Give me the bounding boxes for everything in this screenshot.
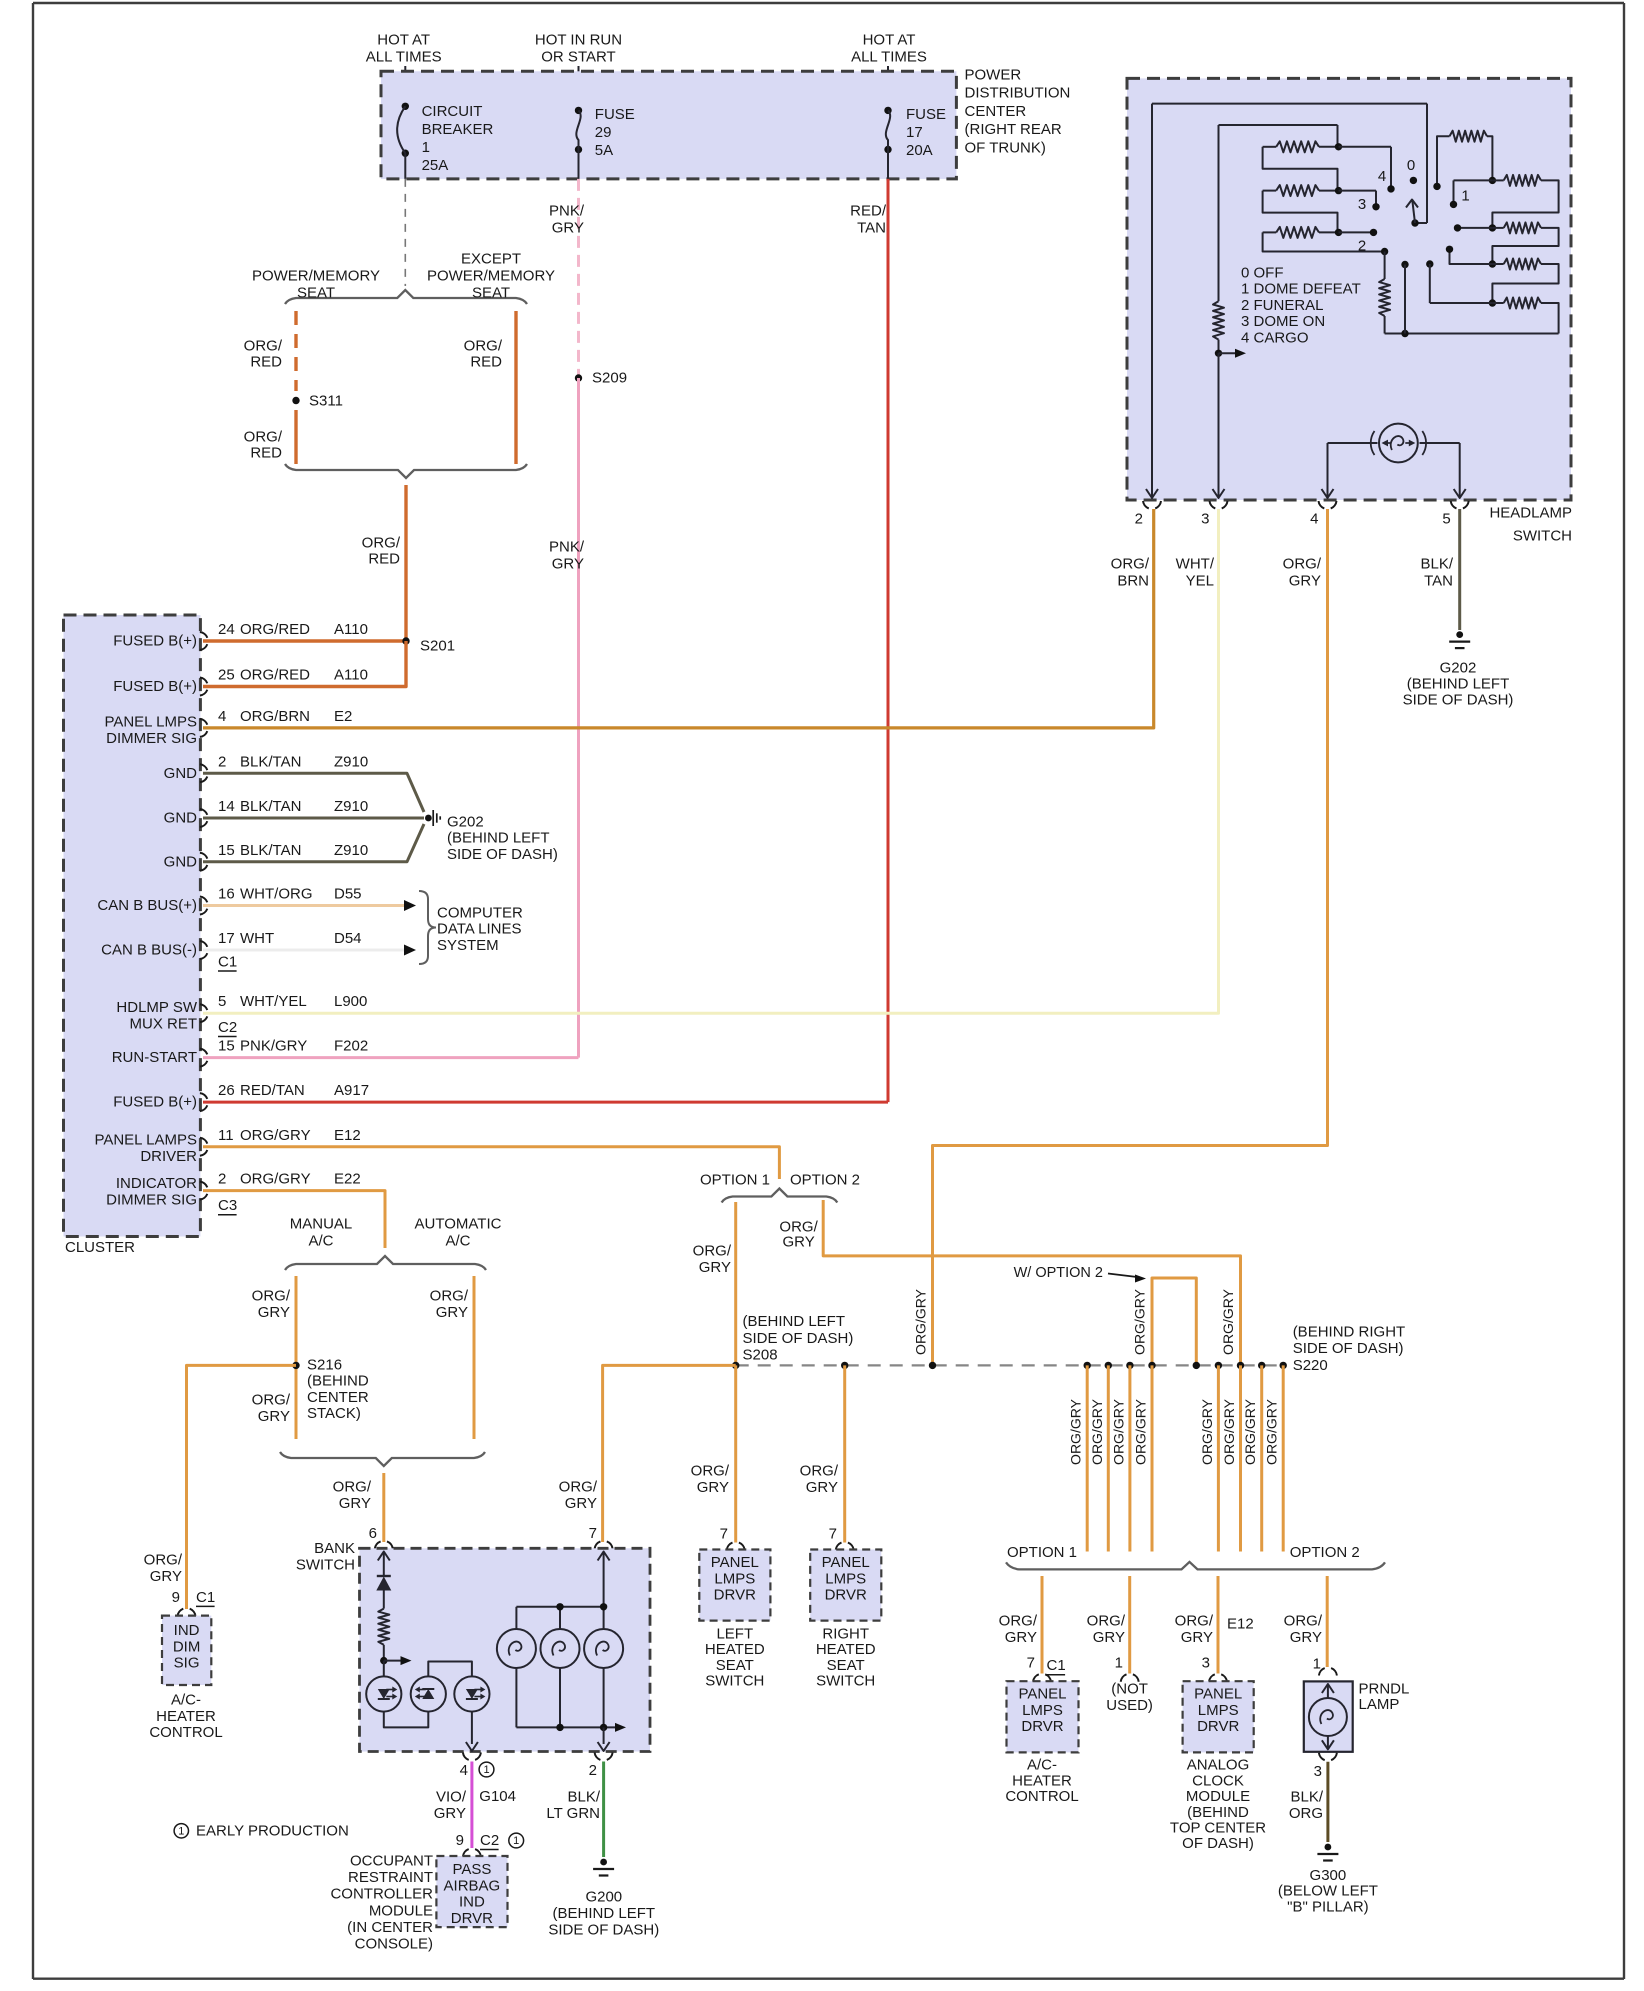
svg-text:D55: D55 (334, 886, 362, 903)
ground G200 (548, 1859, 659, 1939)
svg-text:14: 14 (218, 798, 235, 815)
svg-text:RED: RED (368, 551, 400, 568)
svg-text:GRY: GRY (436, 1304, 468, 1321)
svg-text:(NOT: (NOT (1111, 1681, 1148, 1698)
svg-text:SIG: SIG (174, 1655, 200, 1672)
resistor bank R5t (1430, 298, 1559, 334)
svg-text:ORG/GRY: ORG/GRY (913, 1288, 929, 1355)
svg-text:17: 17 (218, 930, 235, 947)
wire ORG/GRY option tap 8 (1264, 1365, 1284, 1551)
svg-text:ORG/GRY: ORG/GRY (1221, 1398, 1237, 1465)
svg-text:ORG/: ORG/ (1284, 1613, 1323, 1630)
svg-text:7: 7 (829, 1526, 837, 1543)
pin 2 headlamp (1135, 501, 1161, 528)
svg-text:3: 3 (1358, 196, 1366, 213)
svg-text:FUSED B(+): FUSED B(+) (113, 678, 197, 695)
pin 6 bank switch (369, 1525, 393, 1549)
note early production (174, 1822, 349, 1839)
svg-text:S216: S216 (307, 1357, 342, 1374)
ground G202 (headlamp) (1403, 631, 1514, 709)
svg-text:W/ OPTION 2: W/ OPTION 2 (1014, 1265, 1103, 1281)
wire BLK/TAN headlamp pin5 to G202 (1420, 509, 1459, 630)
svg-text:ORG/GRY: ORG/GRY (1131, 1288, 1147, 1355)
wire ORG/GRY E12 to analog clock (1175, 1576, 1254, 1674)
svg-text:RUN-START: RUN-START (112, 1049, 197, 1066)
svg-text:GRY: GRY (1093, 1629, 1125, 1646)
svg-text:2: 2 (589, 1762, 597, 1779)
svg-text:ORG/: ORG/ (464, 338, 503, 355)
pin 4 cluster PANEL LMPS DIMMER SIG (104, 708, 352, 747)
svg-text:A/C: A/C (308, 1233, 333, 1250)
svg-text:PANEL LMPS: PANEL LMPS (104, 714, 197, 731)
wire ORG/RED seat merge to S201 (362, 485, 406, 641)
svg-text:(BEHIND: (BEHIND (307, 1373, 369, 1390)
lamp headlamp illumination (1371, 424, 1426, 463)
svg-text:G200: G200 (585, 1888, 622, 1905)
pin 9 pass airbag (456, 1832, 524, 1857)
wire VIO/GRY bank pin4 (434, 1762, 516, 1849)
svg-text:CONTROL: CONTROL (149, 1724, 222, 1741)
pin 4 headlamp (1310, 501, 1336, 528)
svg-text:17: 17 (906, 124, 923, 141)
svg-text:LMPS: LMPS (1022, 1702, 1063, 1719)
svg-text:(BEHIND LEFT: (BEHIND LEFT (743, 1313, 846, 1330)
wire ORG/RED (except power/memory seat) (464, 311, 516, 464)
svg-text:GRY: GRY (150, 1568, 182, 1585)
svg-text:AUTOMATIC: AUTOMATIC (415, 1216, 502, 1233)
svg-text:ORG/GRY: ORG/GRY (1220, 1288, 1236, 1355)
resistor bank switch (378, 1609, 389, 1661)
A/C-heater panel lmps drvr box (1005, 1681, 1078, 1805)
svg-text:29: 29 (595, 124, 612, 141)
svg-text:WHT/ORG: WHT/ORG (240, 886, 313, 903)
wire ORG/GRY not used (1087, 1576, 1130, 1674)
svg-text:A110: A110 (334, 621, 368, 638)
svg-text:ORG/GRY: ORG/GRY (1068, 1398, 1084, 1465)
svg-text:G104: G104 (479, 1788, 516, 1805)
svg-text:1: 1 (422, 139, 430, 156)
svg-text:1: 1 (1461, 188, 1469, 205)
wire WHT pin17 (203, 945, 416, 972)
svg-text:HOT AT: HOT AT (377, 32, 430, 49)
fuse 17 20A (884, 106, 946, 179)
svg-text:HEATED: HEATED (705, 1641, 765, 1658)
svg-text:RED: RED (250, 445, 282, 462)
svg-text:BLK/TAN: BLK/TAN (240, 753, 301, 770)
svg-text:LEFT: LEFT (716, 1626, 753, 1643)
svg-text:3 DOME ON: 3 DOME ON (1241, 313, 1325, 330)
svg-text:7: 7 (720, 1526, 728, 1543)
svg-text:C2: C2 (218, 1019, 237, 1036)
wire BLK/LT GRN bank pin2 (546, 1762, 603, 1858)
svg-text:4: 4 (218, 708, 226, 725)
resistor ladder R1 (1263, 141, 1343, 152)
node center contact a (1401, 261, 1408, 334)
wire LED3 to pin4 (466, 1712, 478, 1751)
svg-text:(BEHIND LEFT: (BEHIND LEFT (1407, 676, 1510, 693)
svg-text:IND: IND (459, 1894, 485, 1911)
svg-text:PASS: PASS (452, 1861, 491, 1878)
svg-text:OCCUPANT: OCCUPANT (350, 1853, 433, 1870)
svg-text:BLK/TAN: BLK/TAN (240, 798, 301, 815)
svg-text:ORG/: ORG/ (252, 1392, 291, 1409)
pin 9 A/C-heater control (172, 1589, 216, 1616)
svg-text:GRY: GRY (806, 1479, 838, 1496)
resistor center vertical (1379, 252, 1390, 334)
svg-text:S209: S209 (592, 370, 627, 387)
svg-text:CONSOLE): CONSOLE) (355, 1936, 433, 1953)
svg-text:Z910: Z910 (334, 753, 368, 770)
svg-text:SYSTEM: SYSTEM (437, 937, 499, 954)
wire ORG/GRY to left heated seat (691, 1365, 736, 1542)
svg-text:1: 1 (1115, 1655, 1123, 1672)
LED 2 bank switch (411, 1676, 446, 1711)
pin 11 cluster PANEL LAMPS DRIVER (94, 1127, 360, 1165)
lamp bank bulb 3 (584, 1629, 623, 1727)
svg-text:(BEHIND LEFT: (BEHIND LEFT (447, 830, 550, 847)
svg-text:PANEL: PANEL (1018, 1686, 1066, 1703)
pin 16 cluster CAN B BUS(+) (97, 886, 361, 915)
wire PNK/GRY pin15 run-start (203, 1056, 579, 1059)
svg-text:E12: E12 (334, 1127, 361, 1144)
svg-text:3: 3 (1202, 1655, 1210, 1672)
left heated seat panel lmps drvr box (699, 1550, 770, 1690)
wire bank pin6 chain (378, 1552, 390, 1577)
PRNDL lamp box (1304, 1680, 1410, 1752)
svg-text:STACK): STACK) (307, 1405, 361, 1422)
node HOT AT ALL TIMES (right feed) (851, 32, 927, 111)
resistor bank R2t (1450, 175, 1559, 228)
svg-text:ORG/GRY: ORG/GRY (240, 1127, 311, 1144)
svg-text:GRY: GRY (552, 556, 584, 573)
brace MANUAL/AUTOMATIC A/C (285, 1216, 502, 1271)
svg-text:DRVR: DRVR (1021, 1718, 1063, 1735)
svg-text:GRY: GRY (1181, 1629, 1213, 1646)
svg-text:TOP CENTER: TOP CENTER (1170, 1820, 1266, 1837)
brace computer data lines (419, 891, 523, 964)
svg-text:CAN B BUS(+): CAN B BUS(+) (97, 897, 197, 914)
svg-text:RED: RED (470, 354, 502, 371)
svg-text:DRVR: DRVR (825, 1587, 867, 1604)
svg-text:POWER/MEMORY: POWER/MEMORY (252, 268, 380, 285)
wire ORG/GRY option tap 3 (1110, 1365, 1130, 1551)
pin 25 cluster FUSED B(+) (113, 667, 368, 696)
svg-text:26: 26 (218, 1082, 235, 1099)
diode bank switch (376, 1576, 391, 1609)
pin 14 cluster GND (164, 798, 369, 827)
svg-text:(BELOW LEFT: (BELOW LEFT (1278, 1883, 1378, 1900)
svg-text:3: 3 (1314, 1763, 1322, 1780)
svg-text:25: 25 (218, 667, 235, 684)
svg-text:CENTER: CENTER (307, 1389, 369, 1406)
svg-text:S201: S201 (420, 638, 455, 655)
svg-text:1: 1 (513, 1835, 519, 1847)
svg-text:BRN: BRN (1117, 573, 1149, 590)
svg-text:HOT IN RUN: HOT IN RUN (535, 32, 622, 49)
svg-text:SWITCH: SWITCH (1513, 528, 1572, 545)
splice S201 (402, 637, 455, 654)
svg-text:AIRBAG: AIRBAG (444, 1877, 501, 1894)
svg-text:OPTION 1: OPTION 1 (700, 1172, 770, 1189)
svg-text:LT GRN: LT GRN (546, 1805, 600, 1822)
brace A/C merge (280, 1452, 485, 1466)
node contact 2 (1358, 229, 1377, 255)
wire ORG/GRY to PRNDL lamp (1284, 1576, 1328, 1667)
svg-text:ALL TIMES: ALL TIMES (366, 49, 442, 66)
wire ORG/GRY E22 pin2 to AC brace (203, 1191, 385, 1248)
svg-text:GRY: GRY (552, 220, 584, 237)
brace seat merge (285, 464, 527, 478)
svg-text:ALL TIMES: ALL TIMES (851, 49, 927, 66)
wire ORG/GRY option tap 1 (1068, 1365, 1088, 1551)
svg-text:ORG: ORG (1289, 1805, 1323, 1822)
svg-text:GRY: GRY (1289, 573, 1321, 590)
svg-text:HOT AT: HOT AT (863, 32, 916, 49)
svg-text:SIDE OF DASH): SIDE OF DASH) (447, 846, 558, 863)
svg-text:OR START: OR START (541, 49, 615, 66)
wire R2 wrap to R3 (1263, 191, 1338, 233)
svg-text:ORG/: ORG/ (800, 1463, 839, 1480)
svg-text:BLK/: BLK/ (1290, 1789, 1323, 1806)
svg-text:OF TRUNK): OF TRUNK) (965, 139, 1046, 156)
pass airbag ind drvr box (436, 1856, 507, 1927)
svg-text:LAMP: LAMP (1359, 1696, 1400, 1713)
svg-text:L900: L900 (334, 993, 367, 1010)
svg-text:LMPS: LMPS (825, 1570, 866, 1587)
svg-text:S208: S208 (743, 1347, 778, 1364)
wire R1 wrap to R2 (1263, 147, 1338, 191)
svg-text:USED): USED) (1106, 1697, 1153, 1714)
wire ORG/GRY S216 to A/C-heater control (144, 1365, 296, 1609)
svg-text:PANEL: PANEL (1194, 1686, 1242, 1703)
resistor bank R1t (1433, 131, 1492, 190)
occupant restraint label (330, 1853, 433, 1953)
wire ORG/GRY option tap 5 (1199, 1365, 1219, 1551)
svg-text:G300: G300 (1310, 1867, 1347, 1884)
pin 15 cluster RUN-START (112, 1038, 368, 1067)
svg-text:C2: C2 (480, 1832, 499, 1849)
svg-text:TAN: TAN (1424, 573, 1453, 590)
wire ORG/GRY option2 branch (779, 1200, 1240, 1365)
svg-text:PRNDL: PRNDL (1359, 1680, 1410, 1697)
svg-text:7: 7 (589, 1525, 597, 1542)
svg-text:GRY: GRY (339, 1495, 371, 1512)
svg-text:BANK: BANK (314, 1540, 355, 1557)
svg-text:16: 16 (218, 886, 235, 903)
node center contact b (1426, 260, 1433, 303)
svg-text:ORG/: ORG/ (1087, 1613, 1126, 1630)
svg-text:SWITCH: SWITCH (705, 1673, 764, 1690)
svg-text:WHT/: WHT/ (1176, 556, 1215, 573)
svg-text:GRY: GRY (258, 1304, 290, 1321)
svg-text:OF DASH): OF DASH) (1182, 1835, 1254, 1852)
svg-text:ORG/GRY: ORG/GRY (1089, 1398, 1105, 1465)
svg-text:RED: RED (250, 354, 282, 371)
lamp bank bulb 1 (497, 1607, 536, 1728)
svg-text:OPTION 2: OPTION 2 (1290, 1544, 1360, 1561)
svg-text:ORG/: ORG/ (252, 1288, 291, 1305)
svg-text:SIDE OF DASH): SIDE OF DASH) (1293, 1340, 1404, 1357)
svg-text:4: 4 (460, 1762, 468, 1779)
svg-text:DRIVER: DRIVER (140, 1148, 197, 1165)
svg-text:C3: C3 (218, 1197, 237, 1214)
mode list text (1241, 265, 1361, 347)
wire LED1-LED2 bottom (384, 1712, 429, 1728)
svg-text:GRY: GRY (258, 1408, 290, 1425)
svg-text:4: 4 (1310, 511, 1318, 528)
svg-text:GRY: GRY (565, 1495, 597, 1512)
splice S209 (575, 370, 627, 387)
svg-text:YEL: YEL (1186, 573, 1214, 590)
svg-text:ORG/: ORG/ (999, 1613, 1038, 1630)
svg-text:OPTION 2: OPTION 2 (790, 1172, 860, 1189)
pin 3 analog clock (1202, 1655, 1227, 1682)
svg-text:BLK/TAN: BLK/TAN (240, 842, 301, 859)
pin 5 cluster HDLMP SW MUX RET (116, 993, 367, 1036)
svg-text:ORG/GRY: ORG/GRY (1133, 1398, 1149, 1465)
cluster box (64, 615, 201, 1256)
wire ORG/GRY manual A/C branch (252, 1276, 296, 1439)
pin 3 PRNDL (1314, 1753, 1337, 1780)
svg-text:G202: G202 (447, 814, 484, 831)
wire lamp left leg (1322, 443, 1378, 498)
svg-text:GND: GND (164, 765, 198, 782)
svg-text:11: 11 (218, 1127, 234, 1144)
svg-text:A/C-: A/C- (171, 1692, 201, 1709)
svg-text:A917: A917 (334, 1082, 369, 1099)
svg-text:OPTION 1: OPTION 1 (1007, 1544, 1077, 1561)
svg-text:PANEL: PANEL (822, 1554, 870, 1571)
pin 7 left heated seat (720, 1526, 745, 1551)
svg-text:0: 0 (1407, 157, 1415, 174)
pin 1 PRNDL (1313, 1655, 1337, 1675)
svg-text:5: 5 (218, 993, 226, 1010)
svg-text:CAN B BUS(-): CAN B BUS(-) (101, 942, 197, 959)
svg-text:LMPS: LMPS (1198, 1702, 1239, 1719)
svg-text:PANEL: PANEL (711, 1554, 759, 1571)
svg-text:HEADLAMP: HEADLAMP (1489, 505, 1572, 522)
wiper arrow bank switch (380, 1656, 411, 1676)
resistor headlamp dimmer (1213, 301, 1224, 357)
svg-text:RED/TAN: RED/TAN (240, 1082, 305, 1099)
wire ORG/GRY to A/C-heater panel lmps drvr (999, 1576, 1042, 1674)
svg-text:BLK/: BLK/ (1420, 556, 1453, 573)
svg-text:DRVR: DRVR (714, 1587, 756, 1604)
wire ladder top (1219, 125, 1338, 147)
svg-text:RIGHT: RIGHT (822, 1626, 869, 1643)
svg-text:ORG/GRY: ORG/GRY (1264, 1398, 1280, 1465)
svg-text:GRY: GRY (1005, 1629, 1037, 1646)
splice dots S220 line (1084, 1362, 1287, 1369)
svg-text:ORG/: ORG/ (362, 535, 401, 552)
pin 1 not used (1106, 1655, 1153, 1715)
wire headlamp pin3 riser lower (1213, 353, 1225, 498)
wire ORG/RED below S311 (244, 410, 296, 464)
svg-text:C1: C1 (1047, 1657, 1066, 1674)
ground G300 (1278, 1844, 1378, 1916)
wire switch common riser (1411, 104, 1427, 227)
svg-text:SIDE OF DASH): SIDE OF DASH) (743, 1330, 854, 1347)
wire RED/TAN from fuse 17 (850, 179, 888, 1102)
svg-text:(BEHIND: (BEHIND (1187, 1804, 1249, 1821)
svg-text:ORG/: ORG/ (691, 1463, 730, 1480)
svg-text:15: 15 (218, 1038, 235, 1055)
svg-text:E12: E12 (1227, 1615, 1254, 1632)
wire WHT/YEL headlamp pin3 to cluster pin5 (203, 509, 1219, 1013)
resistor ladder R2 (1263, 185, 1343, 196)
svg-text:4: 4 (1378, 168, 1386, 185)
splice dots S208 line (732, 1362, 936, 1369)
svg-text:24: 24 (218, 621, 235, 638)
svg-text:GND: GND (164, 853, 198, 870)
svg-text:ORG/: ORG/ (430, 1288, 469, 1305)
svg-text:1 DOME DEFEAT: 1 DOME DEFEAT (1241, 281, 1361, 298)
svg-text:D54: D54 (334, 930, 362, 947)
svg-text:20A: 20A (906, 142, 933, 159)
svg-text:IND: IND (174, 1622, 200, 1639)
node HOT IN RUN OR START (feed) (535, 32, 622, 111)
svg-text:ORG/RED: ORG/RED (240, 621, 310, 638)
wire ORG/GRY automatic A/C branch (430, 1276, 474, 1439)
svg-text:GRY: GRY (434, 1805, 466, 1822)
svg-text:Z910: Z910 (334, 798, 368, 815)
svg-text:A/C: A/C (445, 1233, 470, 1250)
svg-text:ORG/: ORG/ (144, 1552, 183, 1569)
wire bulb top bus (516, 1603, 607, 1610)
wire ORG/GRY option tap 6 (1221, 1365, 1241, 1551)
svg-text:ORG/GRY: ORG/GRY (1199, 1398, 1215, 1465)
wire ORG/GRY to right heated seat (800, 1365, 845, 1542)
wire bottom bus (1385, 330, 1559, 337)
fuse 29 5A (575, 106, 635, 179)
svg-text:INDICATOR: INDICATOR (116, 1175, 197, 1192)
svg-text:CLOCK: CLOCK (1192, 1772, 1244, 1789)
svg-text:ORG/: ORG/ (693, 1243, 732, 1260)
svg-text:ORG/: ORG/ (244, 338, 283, 355)
svg-text:DRVR: DRVR (1197, 1718, 1239, 1735)
svg-text:Z910: Z910 (334, 842, 368, 859)
svg-text:EXCEPT: EXCEPT (461, 251, 521, 268)
pin 2 cluster GND (164, 753, 369, 782)
pin 3 headlamp (1201, 501, 1227, 528)
svg-text:4 CARGO: 4 CARGO (1241, 329, 1309, 346)
wire R2 to contact 3 (1339, 191, 1377, 207)
svg-text:CLUSTER: CLUSTER (65, 1239, 135, 1256)
svg-text:3: 3 (1201, 511, 1209, 528)
svg-text:ORG/BRN: ORG/BRN (240, 708, 310, 725)
pin 26 cluster FUSED B(+) (113, 1082, 369, 1111)
ground G202 (cluster) (425, 810, 558, 863)
wire headlamp pin3 riser upper (1218, 125, 1220, 301)
wire ORG/GRY E12 pin11 to option brace (203, 1147, 779, 1179)
svg-text:GRY: GRY (697, 1479, 729, 1496)
svg-text:2 FUNERAL: 2 FUNERAL (1241, 297, 1324, 314)
svg-text:DIM: DIM (173, 1638, 201, 1655)
wire ORG/RED pin25 (203, 641, 406, 687)
svg-text:9: 9 (456, 1832, 464, 1849)
svg-text:1: 1 (1313, 1655, 1321, 1672)
svg-text:ORG/: ORG/ (1175, 1613, 1214, 1630)
svg-text:9: 9 (172, 1589, 180, 1606)
svg-text:FUSE: FUSE (906, 106, 946, 123)
svg-text:SEAT: SEAT (297, 285, 335, 302)
svg-text:FUSED B(+): FUSED B(+) (113, 1094, 197, 1111)
pin 15 cluster GND (164, 842, 369, 871)
LED 1 bank switch (366, 1676, 401, 1711)
svg-text:FUSED B(+): FUSED B(+) (113, 633, 197, 650)
svg-text:ANALOG: ANALOG (1187, 1757, 1250, 1774)
svg-text:CONTROLLER: CONTROLLER (330, 1886, 433, 1903)
